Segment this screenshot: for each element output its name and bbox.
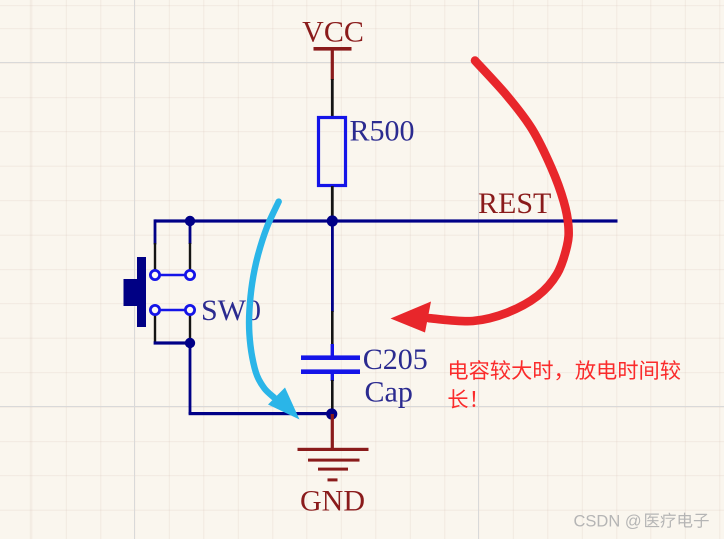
node switch-top junction xyxy=(185,216,195,226)
annotation text line 2 xyxy=(448,389,475,408)
svg-text:C205: C205 xyxy=(363,343,428,376)
switch SW0 pin 1 stub xyxy=(154,243,156,271)
wire node to capacitor C205 xyxy=(331,221,334,312)
watermark chinese xyxy=(645,513,709,528)
node main junction xyxy=(327,215,338,226)
wire REST horizontal xyxy=(155,219,618,222)
svg-text:VCC: VCC xyxy=(302,16,364,49)
wire resistor to node xyxy=(331,186,334,221)
switch SW0 pin 2 stub xyxy=(189,243,191,271)
node switch-bottom junction xyxy=(185,338,195,348)
wire junction to ground xyxy=(331,414,334,449)
resistor R500 xyxy=(319,118,346,186)
svg-text:GND: GND xyxy=(300,485,365,518)
cyan annotation arrow xyxy=(249,202,299,420)
switch SW0 lower contact xyxy=(150,305,194,314)
capacitor C205 top pin stub xyxy=(331,311,334,346)
svg-text:REST: REST xyxy=(478,187,551,220)
wire switch bottom L xyxy=(154,341,192,414)
svg-text:CSDN @: CSDN @ xyxy=(574,513,642,531)
wire bottom horizontal xyxy=(189,412,333,415)
ground GND xyxy=(298,448,369,482)
switch SW0 upper contact xyxy=(150,270,194,279)
annotation text line 1 xyxy=(450,360,680,380)
switch SW0 pin 4 stub xyxy=(189,314,191,342)
power symbol VCC bar xyxy=(314,47,352,80)
wire left drop to switch pin 1 xyxy=(154,219,157,244)
wire junction drop to switch pin 2 xyxy=(189,221,192,244)
switch SW0 pin 3 stub xyxy=(154,314,156,342)
svg-text:Cap: Cap xyxy=(365,376,413,409)
svg-text:R500: R500 xyxy=(350,115,415,148)
wire VCC to resistor R500 xyxy=(331,79,334,117)
capacitor C205 xyxy=(301,344,360,381)
red annotation arrow xyxy=(391,61,569,333)
switch SW0 actuator xyxy=(124,257,147,327)
node bottom junction xyxy=(326,408,337,419)
capacitor C205 bottom pin stub xyxy=(331,380,334,414)
